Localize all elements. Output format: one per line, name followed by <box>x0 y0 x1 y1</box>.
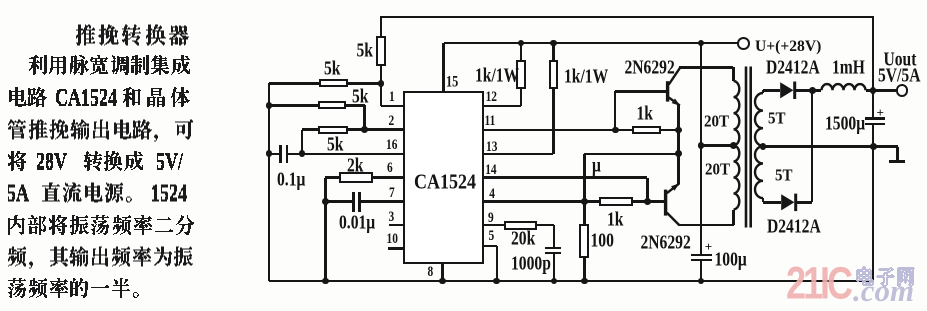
junction node emitter bus / mu wire <box>675 150 682 157</box>
junction node 1000p / ground bus <box>551 278 558 285</box>
junction node center tap at winding <box>730 142 737 149</box>
resistor R10 20k body <box>504 221 538 230</box>
resistor R2 5k body <box>318 101 347 109</box>
wire 2k left drop to ground bus <box>324 178 327 281</box>
label 2k R11 <box>347 156 363 176</box>
label 5k R4 <box>357 41 373 61</box>
wire 2k right lead pin6 wire <box>373 176 404 179</box>
pin label pin6 <box>387 162 393 176</box>
capacitor C5 1500u top plate <box>865 117 885 120</box>
wire 0.1u left lead <box>269 153 280 156</box>
junction node 100u / ground bus <box>698 278 705 285</box>
wire 5k R3 left lead <box>302 128 318 131</box>
wire output ground branch <box>874 145 899 148</box>
transformer T1 primary winding bottom half 20T <box>734 145 740 209</box>
wire D2 cathode wire <box>797 201 812 204</box>
transistor Q1 emitter lead <box>669 98 680 106</box>
wire Q1 base wire <box>615 90 667 93</box>
capacitor C1 0.1u left plate <box>279 145 282 163</box>
label mu sense <box>592 156 601 176</box>
wire ground bottom bus <box>269 280 874 283</box>
wire pin12 wire <box>404 105 521 108</box>
diode D1 D2412A triangle <box>780 82 793 98</box>
pin label pin2 <box>389 115 395 129</box>
wire Q2 collector wire to primary bottom <box>679 224 734 227</box>
label 1k/1W R6 <box>564 67 608 87</box>
wire secondary bottom stub <box>762 198 765 202</box>
IC U1 CA1524 box <box>403 91 483 265</box>
diode D1 D2412A cathode bar <box>793 82 796 100</box>
label 5T top <box>768 111 786 128</box>
junction node D1/D2 common <box>809 87 816 94</box>
label 2N6292 Q1 <box>625 58 675 78</box>
text zh-line2 <box>29 55 190 75</box>
capacitor C3 1000p bottom plate <box>545 252 561 255</box>
label 0.1u C1 <box>277 170 305 190</box>
transformer T1 core line right <box>749 67 752 228</box>
pin label pin12 <box>486 91 497 105</box>
label 20T top <box>704 114 729 131</box>
transformer T1 primary winding top half 20T <box>734 81 740 145</box>
wire 1k/1W R6 bottom lead to pin13 wire <box>552 89 555 154</box>
resistor R9 100 body (vertical) <box>579 224 589 258</box>
wire pin5 wire <box>404 245 497 248</box>
label IC name CA1524 <box>414 171 476 192</box>
wire pin13 wire <box>404 153 553 156</box>
wire 1mH output wire to terminal <box>866 89 897 92</box>
junction node 1k R7 / emitter bus <box>675 127 682 134</box>
capacitor C1 0.1u right plate <box>286 145 289 163</box>
transistor Q2 emitter lead <box>667 184 679 194</box>
wire secondary top stub <box>762 90 765 93</box>
terminal Uout circle <box>896 84 909 97</box>
watermark 21IC logo <box>786 261 850 306</box>
wire D1 cathode wire <box>796 89 822 92</box>
wire pin5 drop to ground bus <box>496 246 499 281</box>
wire feedback rail right drop to Uout node <box>872 17 875 91</box>
capacitor C5 1500u bottom plate <box>865 123 885 126</box>
wire 0.01u right lead pin7 wire <box>358 200 404 203</box>
junction node pin8 / ground bus <box>439 278 446 285</box>
label 5k R2 <box>352 87 368 107</box>
label 5T bottom <box>775 168 793 185</box>
junction node R9 / ground bus <box>581 278 588 285</box>
transistor Q2 2N6292 base bar <box>664 190 667 216</box>
resistor R3 5k body <box>318 126 349 134</box>
wire 1500u bottom lead / output ground drop <box>872 125 875 281</box>
pin label pin3 <box>389 211 395 225</box>
transistor Q1 2N6292 base bar <box>666 81 669 101</box>
pin label pin13 <box>486 141 497 155</box>
junction node R2/R3/pin2 <box>361 126 368 133</box>
wire pin2 wire into IC <box>348 128 405 131</box>
resistor R7 1k body <box>632 126 661 135</box>
text zh-line7 <box>8 215 194 235</box>
wire 20k right lead <box>537 224 555 227</box>
junction node 2k drop / ground bus <box>322 278 329 285</box>
junction node pin14 / Q2 base / 1k R8 <box>644 198 651 205</box>
junction node left bus / 0.1u <box>266 150 273 157</box>
junction node pin4 / 1k R8 / 100 R9 <box>581 198 588 205</box>
resistor R1 5k body <box>319 79 349 87</box>
wire secondary top wire to D1 <box>763 89 780 92</box>
label 0.01u C2 <box>339 213 375 233</box>
wire 1k R8 right lead / Q2 base wire <box>632 200 665 203</box>
pin label pin9 <box>488 212 494 226</box>
wire emitter bus vertical <box>677 104 680 184</box>
wire mu sense wire <box>584 153 678 156</box>
wire 5k R1 left lead <box>269 82 319 85</box>
transistor Q2 emitter arrow <box>671 183 679 190</box>
transistor Q2 collector lead <box>667 213 680 226</box>
pin label pin5 <box>489 230 495 244</box>
pin label pin4 <box>489 188 495 202</box>
wire pin14 wire <box>404 176 647 179</box>
wire pin3 stub <box>389 224 405 227</box>
label 100 R9 <box>591 231 614 251</box>
label 20T bottom <box>705 162 730 179</box>
label 1k R8 <box>607 210 623 230</box>
pin label pin8 <box>428 266 434 280</box>
label plus sign 100u <box>705 240 712 253</box>
wire secondary bottom wire to D2 <box>763 201 781 204</box>
junction node 2k drop / 0.01u <box>322 198 329 205</box>
wire 5k R1 right lead <box>348 82 382 85</box>
pin label pin15 <box>446 74 458 89</box>
wire 1500u top lead <box>872 90 875 117</box>
diode D2 D2412A triangle <box>781 194 794 210</box>
label 1000p C3 <box>511 254 551 274</box>
capacitor C3 1000p top plate <box>545 247 561 250</box>
wire 100u bottom lead <box>700 261 703 281</box>
capacitor C2 0.01u right plate <box>358 192 361 212</box>
capacitor C4 100u bottom plate <box>691 259 712 261</box>
text zh-line8 <box>8 247 193 269</box>
capacitor C4 100u top plate <box>691 254 712 257</box>
wire rectifier common vertical <box>811 90 814 202</box>
junction node U+ rail / center-tap line <box>698 40 705 47</box>
wire 20k drop to 1000p <box>553 225 556 247</box>
pin label pin14 <box>485 164 496 178</box>
pin label pin11 <box>485 115 496 129</box>
wire pin10 stub <box>388 247 404 250</box>
resistor R4 5k body (vertical) <box>376 36 387 66</box>
resistor R11 2k body <box>339 172 373 183</box>
label plus sign 1500u <box>877 106 884 119</box>
wire 5k R2 left lead <box>269 104 318 107</box>
pin label pin1 <box>389 91 395 105</box>
pin label pin10 <box>387 233 398 247</box>
wire 2k left lead <box>325 176 339 179</box>
wire left bus vertical <box>268 83 271 281</box>
text zh-line6 <box>8 183 187 203</box>
wire 5k R2 right lead <box>346 104 365 107</box>
diode D2 D2412A cathode bar <box>794 194 797 212</box>
transistor Q1 emitter arrow <box>672 99 681 106</box>
label D2412A D1 <box>766 58 820 78</box>
label 2N6292 Q2 <box>641 233 691 253</box>
wire 1k/1W R6 top lead <box>552 43 555 60</box>
wire 100 R9 bottom lead <box>583 257 586 281</box>
wire 5k R4 top lead <box>380 17 383 36</box>
label 100u C4 <box>715 250 747 270</box>
transistor Q1 collector lead <box>669 68 680 85</box>
junction node center tap primary <box>698 142 705 149</box>
resistor R6 1k/1W body <box>549 60 559 90</box>
pin label pin16 <box>386 139 397 153</box>
resistor R5 1k/1W body <box>516 60 526 90</box>
wire feedback top rail from 5k R4 to output <box>380 16 874 19</box>
wire pin11 wire to Q1 base node <box>404 129 633 132</box>
label 20k R10 <box>511 229 535 249</box>
junction node 0.1u / R3 / pin16 <box>299 150 306 157</box>
label 5k R1 <box>324 59 340 79</box>
wire R2 right drop to pin2 wire <box>363 105 366 129</box>
label D2412A D2 <box>767 217 821 237</box>
wire 1000p bottom lead <box>553 252 556 281</box>
wire mu wire drop to pin4 node <box>583 154 586 225</box>
junction node pin11 / Q1 base / 1k R7 <box>612 127 619 134</box>
wire pin8 lead to ground bus <box>441 264 444 281</box>
wire pin9 wire <box>404 224 504 227</box>
transformer T1 secondary winding bottom half 5T <box>755 146 763 198</box>
ground symbol bar <box>889 160 905 163</box>
wire 5k R4 bottom lead to node <box>380 65 383 106</box>
wire pin14 drop to Q2 base node <box>646 178 649 202</box>
wire R3 left drop to pin16 wire <box>301 130 304 154</box>
wire pin4 wire <box>404 200 584 203</box>
wire primary top stub <box>732 67 735 81</box>
wire 1k R7 right lead <box>661 129 679 132</box>
label U+(+28V) terminal <box>755 39 821 55</box>
wire +28V center-tap vertical <box>700 43 703 254</box>
transformer T1 secondary winding top half 5T <box>755 93 763 146</box>
wire Q1 collector wire to primary top <box>679 66 733 69</box>
wire 100u top lead <box>700 245 703 254</box>
label 1mH L1 <box>832 58 865 78</box>
wire Q1 base riser <box>614 91 617 130</box>
label Uout terminal <box>884 50 917 70</box>
junction node secondary center tap <box>760 143 767 150</box>
capacitor C2 0.01u left plate <box>352 192 355 212</box>
wire 0.01u left lead <box>325 200 352 203</box>
transformer T1 core line left <box>745 67 748 228</box>
text zh-line3 <box>9 87 190 107</box>
wire 1k/1W R5 bottom lead to pin12 <box>520 89 523 106</box>
wire U+ supply rail <box>444 42 738 45</box>
wire 1k R8 left lead <box>584 200 600 203</box>
text zh-line4 <box>8 120 193 142</box>
inductor L1 1mH coils <box>822 84 866 90</box>
wire pin1 wire into IC <box>381 105 404 108</box>
wire ground symbol lead <box>896 147 899 161</box>
text zh-line5 <box>8 151 183 171</box>
wire primary center tap wire <box>701 144 734 147</box>
text zh-line9 <box>8 278 139 298</box>
junction node U+ rail / R5 <box>518 40 525 47</box>
wire primary bottom stub <box>732 210 735 226</box>
pin label pin7 <box>389 187 395 201</box>
terminal U+ circle <box>737 37 750 50</box>
junction node U+ rail / R6 <box>550 40 557 47</box>
label 5V/5A output <box>878 66 920 86</box>
junction node 5k R4 / R1 / pin1 <box>378 80 385 87</box>
label 1k/1W R5 <box>475 66 519 86</box>
label 5k R3 <box>327 135 343 155</box>
junction node output ground / center tap <box>870 143 877 150</box>
resistor R8 1k body <box>599 197 632 206</box>
watermark .com script <box>853 275 914 306</box>
junction node pin5 / ground bus <box>493 278 500 285</box>
wire 1k/1W R5 top lead <box>520 43 523 60</box>
junction node left bus / R2 <box>266 102 273 109</box>
label 1k R7 <box>637 104 653 124</box>
wire pin15 lead up <box>442 43 445 91</box>
wire 0.1u right lead / pin16 wire <box>288 153 404 156</box>
wire secondary center tap wire to output ground <box>763 145 874 148</box>
label 1500u C5 <box>825 114 865 134</box>
text zh-line1 <box>76 25 189 46</box>
junction node Uout / 1500u <box>870 87 877 94</box>
